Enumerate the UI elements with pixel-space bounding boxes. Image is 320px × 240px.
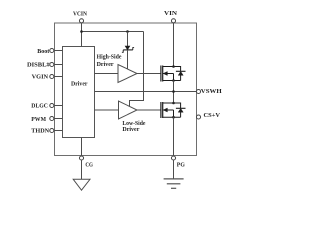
svg-text:VCIN: VCIN: [73, 10, 87, 17]
pin CG: [79, 156, 83, 160]
svg-text:Driver: Driver: [122, 126, 139, 133]
wire bootstrap diode cathode to high-side driver: [127, 50, 129, 69]
wire low-side buffer output to gate: [137, 109, 161, 111]
svg-text:VSWH: VSWH: [201, 88, 222, 95]
svg-text:CG: CG: [85, 161, 93, 168]
node high-side source: [172, 79, 175, 82]
svg-text:Boot: Boot: [37, 49, 49, 55]
wire Driver to high-side buffer input: [95, 73, 119, 75]
svg-text:VIN: VIN: [164, 10, 178, 17]
node high-side drain: [172, 65, 175, 68]
node low-side source: [172, 116, 175, 119]
wire CG to ground: [81, 160, 83, 179]
wire source to VSWH rail to low-side drain: [173, 81, 175, 104]
ground chassis triangle CG: [73, 179, 90, 190]
svg-text:DISBL#: DISBL#: [27, 63, 50, 69]
pin PG: [171, 156, 175, 160]
transistor Q2 low-side MOSFET: [161, 102, 181, 118]
wire VSWH rail: [95, 91, 197, 93]
node low-side drain: [172, 102, 175, 105]
wire to bootstrap diode anode: [127, 32, 129, 47]
diode body diode high-side: [174, 67, 186, 81]
svg-text:VGIN: VGIN: [32, 75, 49, 81]
svg-text:Driver: Driver: [97, 61, 114, 68]
wire Driver down to CG: [81, 138, 83, 156]
diode D1 bootstrap (schottky): [122, 46, 134, 52]
driver block box: [63, 47, 95, 138]
svg-text:PG: PG: [177, 161, 185, 168]
pin CS+V: [196, 115, 200, 119]
pin VSWH: [196, 89, 200, 93]
svg-text:CS+V: CS+V: [204, 112, 221, 119]
chip outer box U1: [55, 23, 197, 156]
op-amp buffer high-side driver: [118, 65, 137, 83]
svg-text:PWM: PWM: [31, 117, 46, 123]
wire PG to ground: [173, 160, 175, 179]
svg-text:THDN: THDN: [31, 129, 49, 135]
svg-text:High-Side: High-Side: [97, 54, 122, 61]
wire Driver to low-side buffer input: [95, 109, 119, 111]
op-amp buffer low-side driver: [119, 101, 138, 119]
svg-text:Driver: Driver: [71, 80, 88, 87]
wire VIN down to high-side drain: [173, 23, 175, 67]
node bootstrap diode tap: [126, 30, 129, 33]
wire down right of branch: [130, 32, 144, 107]
node VCIN branch: [80, 30, 83, 33]
diode body diode low-side: [174, 103, 186, 117]
transistor Q1 high-side MOSFET: [161, 66, 181, 82]
wire high-side buffer output to gate: [137, 73, 161, 75]
svg-text:DLGC: DLGC: [31, 103, 48, 109]
wire low-side source down to PG: [173, 117, 175, 155]
node VSWH rail junction: [172, 90, 175, 93]
pin VCIN circle: [79, 19, 83, 23]
ground earth PG: [164, 179, 184, 188]
wire VCIN down to Driver: [81, 23, 83, 47]
wire VCIN branch horizontal: [82, 31, 144, 33]
pin VIN circle: [171, 19, 175, 23]
